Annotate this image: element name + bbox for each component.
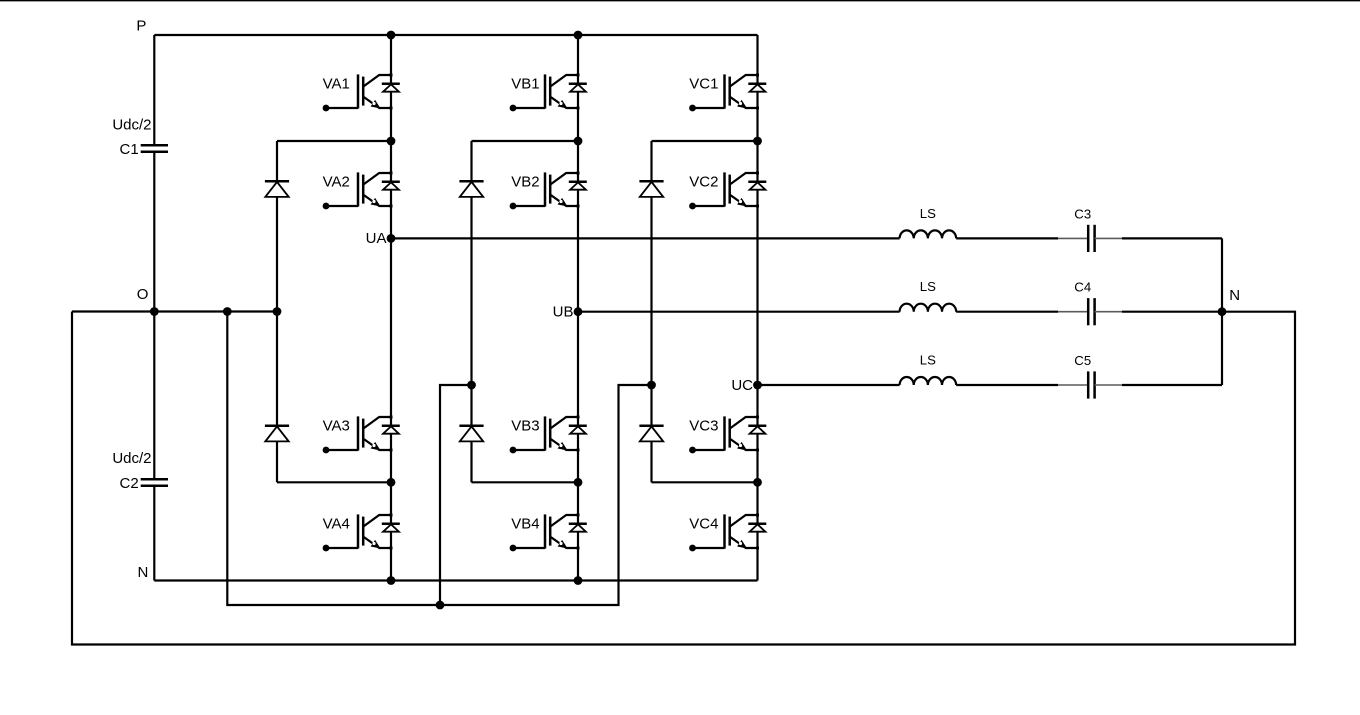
svg-text:Udc/2: Udc/2 <box>112 450 151 467</box>
wire O rail <box>72 310 277 312</box>
svg-text:C1: C1 <box>120 141 139 158</box>
inductor LS phase B <box>900 304 957 312</box>
transistor VB4 <box>510 514 587 552</box>
wire O feed branch B <box>440 385 472 605</box>
svg-text:LS: LS <box>920 279 936 294</box>
wire phase A leg <box>390 35 392 581</box>
wire inductor to C5 <box>956 384 1058 386</box>
svg-text:LS: LS <box>920 206 936 221</box>
wire phase C clamp branch <box>650 141 652 482</box>
svg-text:VA3: VA3 <box>323 417 350 434</box>
svg-text:VC1: VC1 <box>689 75 718 92</box>
wire inductor to C4 <box>956 311 1058 313</box>
svg-text:VB2: VB2 <box>511 173 539 190</box>
wire UB to inductor <box>578 311 900 313</box>
wire phase B leg <box>577 35 579 581</box>
capacitor C1 <box>141 145 168 152</box>
junction O clamp A <box>273 307 282 316</box>
wire phase C leg <box>756 35 758 581</box>
inductor LS phase A <box>900 230 957 238</box>
svg-text:UB: UB <box>553 304 574 321</box>
svg-text:UA: UA <box>366 230 387 247</box>
svg-text:VC2: VC2 <box>689 173 718 190</box>
svg-text:P: P <box>136 18 146 35</box>
wire C4 left lead <box>1058 311 1088 313</box>
transistor VC4 <box>689 514 766 552</box>
junction C3-C4 <box>753 478 762 487</box>
transistor VB1 <box>510 74 587 112</box>
capacitor C5 <box>1088 371 1094 398</box>
wire DC bus left lower <box>153 486 155 580</box>
svg-text:C4: C4 <box>1074 280 1091 295</box>
wire C3 to star point <box>1122 237 1222 239</box>
wire C5 right lead <box>1095 384 1122 386</box>
diode clamp lower phase A <box>265 426 289 442</box>
capacitor C2 <box>141 479 168 486</box>
transistor VA2 <box>323 172 400 210</box>
wire C3 left lead <box>1058 237 1088 239</box>
svg-text:VA1: VA1 <box>323 75 350 92</box>
svg-text:VA4: VA4 <box>323 515 350 532</box>
svg-text:C5: C5 <box>1074 353 1091 368</box>
node UA <box>387 234 396 243</box>
junction N-A <box>387 576 396 585</box>
transistor VB2 <box>510 172 587 210</box>
wire UA to inductor <box>391 237 900 239</box>
wire DC bus left upper <box>153 35 155 145</box>
junction dist <box>436 601 445 610</box>
diode clamp upper phase C <box>639 181 663 197</box>
junction feed clamp C <box>647 381 656 390</box>
wire phase A clamp bottom link <box>277 481 391 483</box>
inductor LS phase C <box>900 377 957 385</box>
svg-text:N: N <box>138 564 149 581</box>
wire inductor to C3 <box>956 237 1058 239</box>
transistor VA4 <box>323 514 400 552</box>
wire phase A clamp top link <box>277 140 391 142</box>
svg-text:N: N <box>1229 287 1240 304</box>
junction O feed <box>223 307 232 316</box>
junction O left <box>150 307 159 316</box>
svg-text:VB1: VB1 <box>511 75 539 92</box>
diode clamp lower phase C <box>639 426 663 442</box>
wire phase B clamp top link <box>472 140 579 142</box>
wire C4 right lead <box>1095 311 1122 313</box>
wire phase B clamp bottom link <box>472 481 579 483</box>
transistor VC3 <box>689 416 766 454</box>
junction N-B <box>574 576 583 585</box>
svg-text:VC4: VC4 <box>689 515 718 532</box>
wire outer loop <box>72 312 1295 645</box>
junction P-B <box>574 31 583 40</box>
svg-text:VC3: VC3 <box>689 417 718 434</box>
wire DC bus left middle <box>153 152 155 479</box>
wire star point vertical <box>1221 238 1223 385</box>
wire C5 left lead <box>1058 384 1088 386</box>
svg-text:LS: LS <box>920 353 936 368</box>
svg-text:VB4: VB4 <box>511 515 539 532</box>
svg-text:UC: UC <box>731 377 753 394</box>
svg-text:VB3: VB3 <box>511 417 539 434</box>
transistor VA1 <box>323 74 400 112</box>
wire N rail <box>154 579 757 581</box>
wire C5 to star point <box>1122 384 1222 386</box>
junction C1-C2 <box>753 137 762 146</box>
wire phase C clamp top link <box>652 140 758 142</box>
svg-text:VA2: VA2 <box>323 173 350 190</box>
wire phase B clamp branch <box>470 141 472 482</box>
junction A1-A2 <box>387 137 396 146</box>
node UC <box>753 381 762 390</box>
transistor VA3 <box>323 416 400 454</box>
wire O feed down <box>227 312 651 606</box>
svg-text:C2: C2 <box>120 475 139 492</box>
junction A3-A4 <box>387 478 396 487</box>
transistor VB3 <box>510 416 587 454</box>
junction B3-B4 <box>574 478 583 487</box>
junction feed clamp B <box>467 381 476 390</box>
transistor VC2 <box>689 172 766 210</box>
wire phase A clamp branch <box>276 141 278 482</box>
wire C3 right lead <box>1095 237 1122 239</box>
svg-text:C3: C3 <box>1074 206 1091 221</box>
wire UC to inductor <box>758 384 900 386</box>
diode clamp upper phase A <box>265 181 289 197</box>
diode clamp upper phase B <box>459 181 483 197</box>
wire C4 to star point <box>1122 311 1222 313</box>
junction B1-B2 <box>574 137 583 146</box>
capacitor C4 <box>1088 298 1094 325</box>
wire phase C clamp bottom link <box>652 481 758 483</box>
node N star <box>1218 307 1227 316</box>
wire P rail <box>154 34 757 36</box>
node UB <box>574 307 583 316</box>
capacitor C3 <box>1088 225 1094 252</box>
junction P-A <box>387 31 396 40</box>
svg-text:Udc/2: Udc/2 <box>112 117 151 134</box>
diode clamp lower phase B <box>459 426 483 442</box>
transistor VC1 <box>689 74 766 112</box>
svg-text:O: O <box>137 286 149 303</box>
